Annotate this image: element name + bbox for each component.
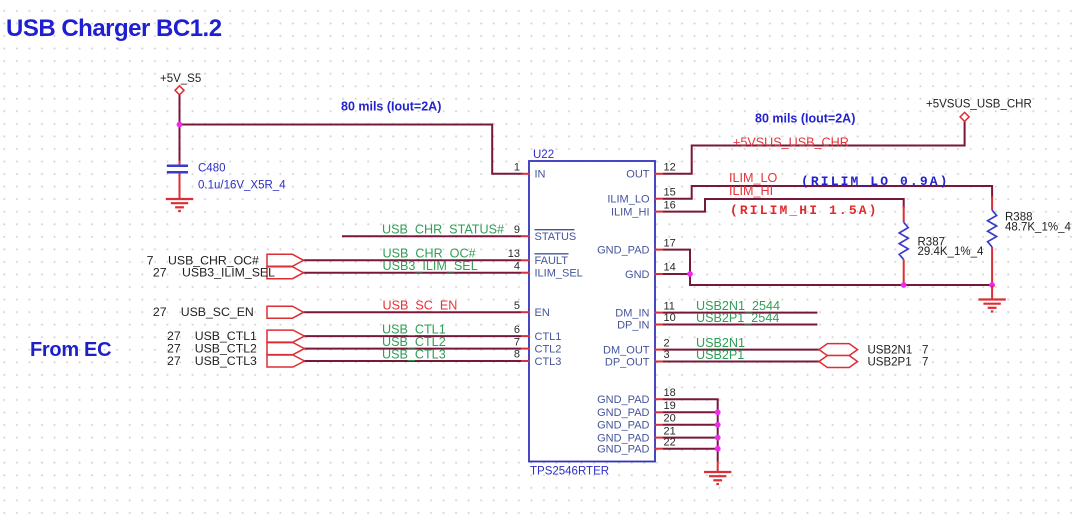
junction pin21	[715, 435, 721, 441]
pin 1 number	[514, 162, 520, 174]
pin 13 FAULT left stub	[521, 259, 530, 261]
pin 19 name GND_PAD	[597, 407, 649, 419]
net label USB2N1	[696, 336, 745, 350]
net label USB2N1_2544	[696, 299, 780, 313]
annotation RILIM_LO	[801, 174, 950, 189]
pin 9 STATUS left stub	[521, 235, 530, 237]
pin 2 number	[664, 337, 670, 349]
svg-text:5: 5	[514, 300, 520, 312]
pin 3 DP_OUT right stub	[655, 361, 664, 363]
svg-text:USB Charger BC1.2: USB Charger BC1.2	[6, 15, 222, 42]
svg-text:DM_OUT: DM_OUT	[603, 344, 650, 356]
svg-text:USB_SC_EN: USB_SC_EN	[181, 305, 254, 319]
pin 3 name DP_OUT	[605, 356, 650, 368]
wire GND_PAD pin20	[663, 424, 718, 426]
wire GND_PAD pin21	[663, 437, 718, 439]
capacitor C480 top stub	[179, 161, 181, 166]
IC U22 body	[529, 161, 655, 462]
svg-text:GND_PAD: GND_PAD	[597, 444, 649, 456]
pin 15 number	[664, 186, 676, 198]
pin 16 ILIM_HI right stub	[655, 211, 664, 213]
svg-text:GND_PAD: GND_PAD	[597, 244, 649, 256]
svg-text:TPS2546RTER: TPS2546RTER	[530, 466, 609, 478]
net label +5VSUS_USB_CHR red	[733, 136, 849, 150]
svg-text:GND_PAD: GND_PAD	[597, 420, 649, 432]
sheet title	[6, 15, 222, 42]
svg-text:29.4K_1%_4: 29.4K_1%_4	[918, 246, 984, 258]
pin 10 name DP_IN	[617, 319, 649, 331]
pin 16 name ILIM_HI	[611, 206, 650, 218]
svg-text:17: 17	[664, 237, 676, 249]
pin 4 number	[514, 260, 520, 272]
pin 7 CTL2 left stub	[521, 348, 530, 350]
pin 18 number	[664, 387, 676, 399]
svg-text:48.7K_1%_4: 48.7K_1%_4	[1005, 221, 1071, 233]
junction R388 bottom	[989, 282, 995, 288]
net label USB2P1_2544	[696, 311, 779, 325]
wire GND pin14	[663, 273, 690, 275]
svg-text:DP_IN: DP_IN	[617, 319, 649, 331]
ground under GND_PAD bus	[704, 472, 731, 484]
svg-text:ILIM_LO: ILIM_LO	[607, 194, 650, 206]
wire GND_PAD pin18	[663, 399, 718, 462]
pin 17 name GND_PAD	[597, 244, 649, 256]
pin 6 number	[514, 324, 520, 336]
svg-text:C480: C480	[198, 163, 226, 175]
pin 19 GND_PAD right stub	[655, 411, 664, 413]
sheet ref text USB2P1 7	[868, 357, 929, 369]
svg-text:19: 19	[664, 400, 676, 412]
wire ILIM_LO pin15 to R388	[663, 186, 992, 199]
annotation 80 mils left	[341, 100, 441, 114]
resistor R387 bottom stub	[903, 260, 905, 285]
svg-text:10: 10	[664, 312, 676, 324]
svg-text:USB2P1: USB2P1	[868, 357, 912, 369]
svg-text:CTL1: CTL1	[535, 331, 562, 343]
svg-text:DP_OUT: DP_OUT	[605, 356, 650, 368]
svg-text:27: 27	[153, 266, 167, 280]
pin 21 GND_PAD right stub	[655, 437, 664, 439]
junction pin14	[687, 271, 693, 277]
pin 9 number	[514, 224, 520, 236]
pin 3 number	[664, 349, 670, 361]
svg-text:USB2N1: USB2N1	[868, 345, 913, 357]
pin 10 number	[664, 312, 676, 324]
pin 5 number	[514, 300, 520, 312]
sheet ref text 27 USB_SC_EN	[153, 305, 254, 319]
svg-text:0.1u/16V_X5R_4: 0.1u/16V_X5R_4	[198, 180, 286, 192]
pin 13 number	[508, 248, 520, 260]
net label USB_CTL2	[382, 335, 446, 349]
svg-text:20: 20	[664, 413, 676, 425]
pin 20 GND_PAD right stub	[655, 424, 664, 426]
resistor R388 labels	[1005, 211, 1071, 233]
svg-text:3: 3	[664, 349, 670, 361]
net label USB_CTL3	[382, 347, 446, 361]
svg-text:1: 1	[514, 162, 520, 174]
off-page port USB_CTL2	[267, 343, 305, 355]
pin 12 name OUT	[626, 169, 650, 181]
svg-text:16: 16	[664, 199, 676, 211]
pin 7 name CTL2	[535, 343, 562, 355]
capacitor C480 bottom stub	[179, 173, 181, 198]
pin 14 name GND	[625, 269, 650, 281]
wire ILIM_HI pin16 to R387	[663, 199, 904, 212]
capacitor C480 plates	[167, 166, 188, 173]
svg-text:USB_CHR_STATUS#: USB_CHR_STATUS#	[382, 223, 504, 237]
ground under R388	[978, 300, 1005, 312]
wire GND_PAD pin17	[663, 250, 992, 285]
pin 15 name ILIM_LO	[607, 194, 650, 206]
svg-text:12: 12	[664, 162, 676, 174]
pin 16 number	[664, 199, 676, 211]
annotation RILIM_HI	[730, 203, 879, 218]
svg-text:GND_PAD: GND_PAD	[597, 407, 649, 419]
resistor R388 top stub	[991, 196, 993, 210]
pin 1 IN left stub	[521, 173, 530, 175]
svg-text:(RILIM_LO 0.9A): (RILIM_LO 0.9A)	[801, 174, 950, 189]
pin 10 DP_IN right stub	[655, 324, 664, 326]
pin 22 name GND_PAD	[597, 444, 649, 456]
svg-text:USB_CTL3: USB_CTL3	[195, 354, 257, 368]
power port +5V_S5 label	[160, 73, 201, 85]
svg-text:8: 8	[514, 349, 520, 361]
pin 7 number	[514, 336, 520, 348]
resistor R387 labels	[918, 236, 984, 258]
junction pin20	[715, 422, 721, 428]
net label USB_SC_EN	[383, 299, 458, 313]
sheet ref text 7 USB_CHR_OC#	[147, 253, 259, 267]
svg-text:From EC: From EC	[30, 339, 111, 361]
svg-text:IN: IN	[535, 169, 546, 181]
svg-text:11: 11	[664, 300, 675, 312]
pin 15 ILIM_LO right stub	[655, 198, 664, 200]
pin 4 ILIM_SEL left stub	[521, 272, 530, 274]
svg-text:ILIM_SEL: ILIM_SEL	[535, 268, 583, 280]
svg-text:9: 9	[514, 224, 520, 236]
annotation 80 mils right	[755, 112, 855, 126]
svg-text:ILIM_HI: ILIM_HI	[611, 206, 650, 218]
svg-text:13: 13	[508, 248, 520, 260]
svg-text:+5V_S5: +5V_S5	[160, 73, 201, 85]
pin 11 name DM_IN	[615, 307, 649, 319]
net label ILIM_LO	[729, 171, 778, 185]
svg-text:+5VSUS_USB_CHR: +5VSUS_USB_CHR	[733, 136, 849, 150]
pin 1 name IN	[535, 169, 546, 181]
pin 12 OUT right stub	[655, 173, 664, 175]
svg-text:GND_PAD: GND_PAD	[597, 394, 649, 406]
pin 14 GND right stub	[655, 273, 664, 275]
pin 2 name DM_OUT	[603, 344, 650, 356]
pin 8 CTL3 left stub	[521, 360, 530, 362]
junction node at +5V_S5	[177, 122, 183, 128]
junction pin22	[715, 446, 721, 452]
pin 5 name EN	[535, 307, 550, 319]
bidirectional port USB2P1	[819, 356, 858, 368]
net label USB_CHR_STATUS#	[382, 223, 504, 237]
pin 14 number	[664, 262, 676, 274]
pin 6 name CTL1	[535, 331, 562, 343]
pin 8 name CTL3	[535, 356, 562, 368]
wire USB_CTL1	[304, 335, 521, 337]
net label USB_CHR_OC#	[383, 247, 476, 261]
svg-text:27: 27	[153, 305, 167, 319]
resistor R388 bottom stub	[991, 247, 993, 285]
svg-text:27: 27	[167, 354, 181, 368]
off-page port USB_SC_EN	[267, 306, 304, 318]
pin 8 number	[514, 349, 520, 361]
junction R387 bottom	[901, 282, 907, 288]
ground under C480	[166, 199, 193, 211]
svg-text:U22: U22	[533, 149, 554, 161]
svg-text:+5VSUS_USB_CHR: +5VSUS_USB_CHR	[926, 99, 1032, 111]
resistor R387 zigzag	[899, 222, 908, 259]
svg-text:USB2P1: USB2P1	[696, 348, 744, 362]
svg-text:18: 18	[664, 387, 676, 399]
svg-text:80 mils (Iout=2A): 80 mils (Iout=2A)	[341, 100, 441, 114]
pin 2 DM_OUT right stub	[655, 349, 664, 351]
wire USB_CHR_OC#	[304, 259, 522, 261]
off-page port USB_CTL3	[267, 355, 305, 367]
annotation From EC	[30, 339, 111, 361]
svg-text:OUT: OUT	[626, 169, 650, 181]
svg-text:STATUS: STATUS	[535, 231, 577, 243]
svg-text:USB3_ILIM_SEL: USB3_ILIM_SEL	[182, 266, 275, 280]
svg-text:7: 7	[922, 357, 928, 369]
svg-text:USB_SC_EN: USB_SC_EN	[383, 299, 458, 313]
pin 21 name GND_PAD	[597, 432, 649, 444]
sheet ref text USB2N1 7	[868, 345, 929, 357]
power port +5V_S5 diamond	[175, 86, 184, 95]
sheet ref text 27 USB_CTL2	[167, 342, 257, 356]
svg-text:CTL3: CTL3	[535, 356, 562, 368]
pin 11 number	[664, 300, 675, 312]
pin 5 EN left stub	[521, 311, 530, 313]
svg-text:USB3_ILIM_SEL: USB3_ILIM_SEL	[383, 259, 478, 273]
wire GND_PAD pin22	[663, 448, 718, 450]
svg-text:GND: GND	[625, 269, 650, 281]
pin 17 number	[664, 237, 676, 249]
sheet ref text 27 USB_CTL1	[167, 329, 257, 343]
pin 19 number	[664, 400, 676, 412]
pin 21 number	[664, 425, 676, 437]
wire USB_SC_EN	[304, 311, 522, 313]
svg-text:80 mils (Iout=2A): 80 mils (Iout=2A)	[755, 112, 855, 126]
IC U22 part number TPS2546RTER	[530, 466, 609, 478]
svg-text:6: 6	[514, 324, 520, 336]
pin 9 name STATUS	[535, 230, 577, 243]
net label ILIM_HI	[729, 184, 773, 198]
sheet ref text 27 USB3_ILIM_SEL	[153, 266, 275, 280]
svg-text:15: 15	[664, 186, 676, 198]
wire GND_PAD pin19	[663, 411, 718, 413]
svg-text:14: 14	[664, 262, 676, 274]
wire USB_CTL2	[304, 348, 521, 350]
off-page port USB3_ILIM_SEL	[267, 267, 304, 279]
svg-text:4: 4	[514, 260, 520, 272]
net label USB_CTL1	[382, 322, 446, 336]
svg-text:7: 7	[514, 336, 520, 348]
pin 12 number	[664, 162, 676, 174]
pin 11 DM_IN right stub	[655, 312, 664, 314]
wire +5V_S5 horizontal to pin 1	[180, 125, 524, 174]
wire to ground right	[991, 285, 993, 299]
wire USB3_ILIM_SEL	[304, 272, 522, 274]
sheet ref text 27 USB_CTL3	[167, 354, 257, 368]
pin 4 name ILIM_SEL	[535, 268, 583, 280]
pin 6 CTL1 left stub	[521, 335, 530, 337]
pin 17 GND_PAD right stub	[655, 249, 664, 251]
wire DP_OUT USB2P1	[663, 361, 819, 363]
off-page port USB_CHR_OC#	[267, 254, 304, 266]
wire USB_CHR_STATUS#	[342, 235, 521, 237]
pin 18 GND_PAD right stub	[655, 398, 664, 400]
pin 20 name GND_PAD	[597, 420, 649, 432]
wire USB_CTL3	[304, 360, 521, 362]
svg-text:7: 7	[922, 345, 928, 357]
net label USB3_ILIM_SEL	[383, 259, 478, 273]
wire OUT to +5VSUS_USB_CHR	[663, 121, 965, 173]
power port +5VSUS_USB_CHR diamond	[960, 112, 969, 121]
wire DM_IN USB2N1_2544	[663, 312, 817, 314]
wire DM_OUT USB2N1	[663, 349, 819, 351]
wire +5V_S5 vertical	[179, 95, 181, 161]
power port +5VSUS_USB_CHR label	[926, 99, 1032, 111]
resistor R387 top stub	[903, 206, 905, 222]
wire to ground bottom	[717, 461, 719, 472]
wire DP_IN USB2P1_2544	[663, 324, 817, 326]
svg-text:CTL2: CTL2	[535, 343, 562, 355]
pin 13 name FAULT	[535, 254, 569, 267]
bidirectional port USB2N1	[819, 344, 858, 356]
pin 18 name GND_PAD	[597, 394, 649, 406]
svg-text:ILIM_LO: ILIM_LO	[729, 171, 778, 185]
svg-text:USB2P1_2544: USB2P1_2544	[696, 311, 779, 325]
svg-text:ILIM_HI: ILIM_HI	[729, 184, 773, 198]
IC U22 designator	[533, 149, 554, 161]
svg-text:2: 2	[664, 337, 670, 349]
pin 22 GND_PAD right stub	[655, 448, 664, 450]
svg-text:FAULT: FAULT	[535, 255, 569, 267]
svg-text:DM_IN: DM_IN	[615, 307, 649, 319]
net label USB2P1	[696, 348, 744, 362]
pin 22 number	[664, 436, 676, 448]
capacitor C480 labels	[198, 163, 286, 192]
pin 20 number	[664, 413, 676, 425]
svg-text:EN: EN	[535, 307, 550, 319]
svg-text:(RILIM_HI 1.5A): (RILIM_HI 1.5A)	[730, 203, 879, 218]
resistor R388 zigzag	[988, 210, 997, 247]
junction pin19	[715, 409, 721, 415]
off-page port USB_CTL1	[267, 330, 305, 342]
svg-text:USB_CTL3: USB_CTL3	[382, 347, 446, 361]
